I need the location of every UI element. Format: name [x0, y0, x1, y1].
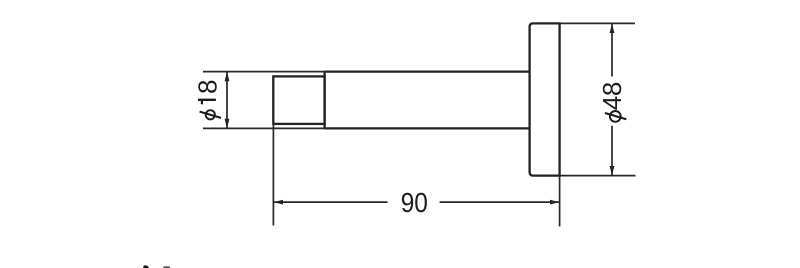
90 right extension line	[559, 176, 561, 227]
90 dimension arrow right	[550, 200, 560, 205]
phi18 dimension line	[226, 72, 228, 128]
phi48 dimension arrow down	[610, 166, 615, 176]
dimension text phi18 digit 1 (drawn: stem bar + flag)	[198, 99, 216, 105]
shaft left end face	[323, 71, 325, 130]
flange (wall plate) outline	[530, 23, 560, 175]
phi symbol of phi48: slash	[605, 113, 626, 119]
svg-text:8: 8	[193, 80, 223, 94]
phi symbol of phi48: circle	[610, 111, 621, 122]
phi18 dimension arrow down	[225, 119, 230, 129]
90 dimension line (broken for text)	[274, 201, 559, 203]
phi18 dimension arrow up	[225, 72, 230, 82]
phi48 top extension line	[560, 22, 635, 24]
cropped caption mark (gray bar) at bottom	[163, 266, 170, 268]
phi48 bottom extension line	[560, 175, 636, 177]
90 dimension arrow left	[274, 200, 284, 205]
phi48 dimension arrow up	[610, 24, 615, 34]
svg-text:48: 48	[597, 82, 627, 110]
phi symbol of phi18: slash	[200, 112, 221, 118]
90 left extension line	[272, 124, 274, 225]
phi48 dimension line (broken for text)	[611, 24, 613, 175]
shaft top outline	[325, 70, 530, 72]
phi18 top extension line	[203, 71, 325, 73]
cropped caption mark (dark blob) at bottom	[143, 265, 148, 268]
tip (rubber bumper) rectangle	[273, 76, 324, 124]
phi symbol of phi18: circle	[206, 110, 215, 119]
shaft bottom outline	[325, 127, 530, 129]
svg-text:90: 90	[401, 187, 428, 218]
phi18 bottom extension line	[203, 127, 325, 129]
